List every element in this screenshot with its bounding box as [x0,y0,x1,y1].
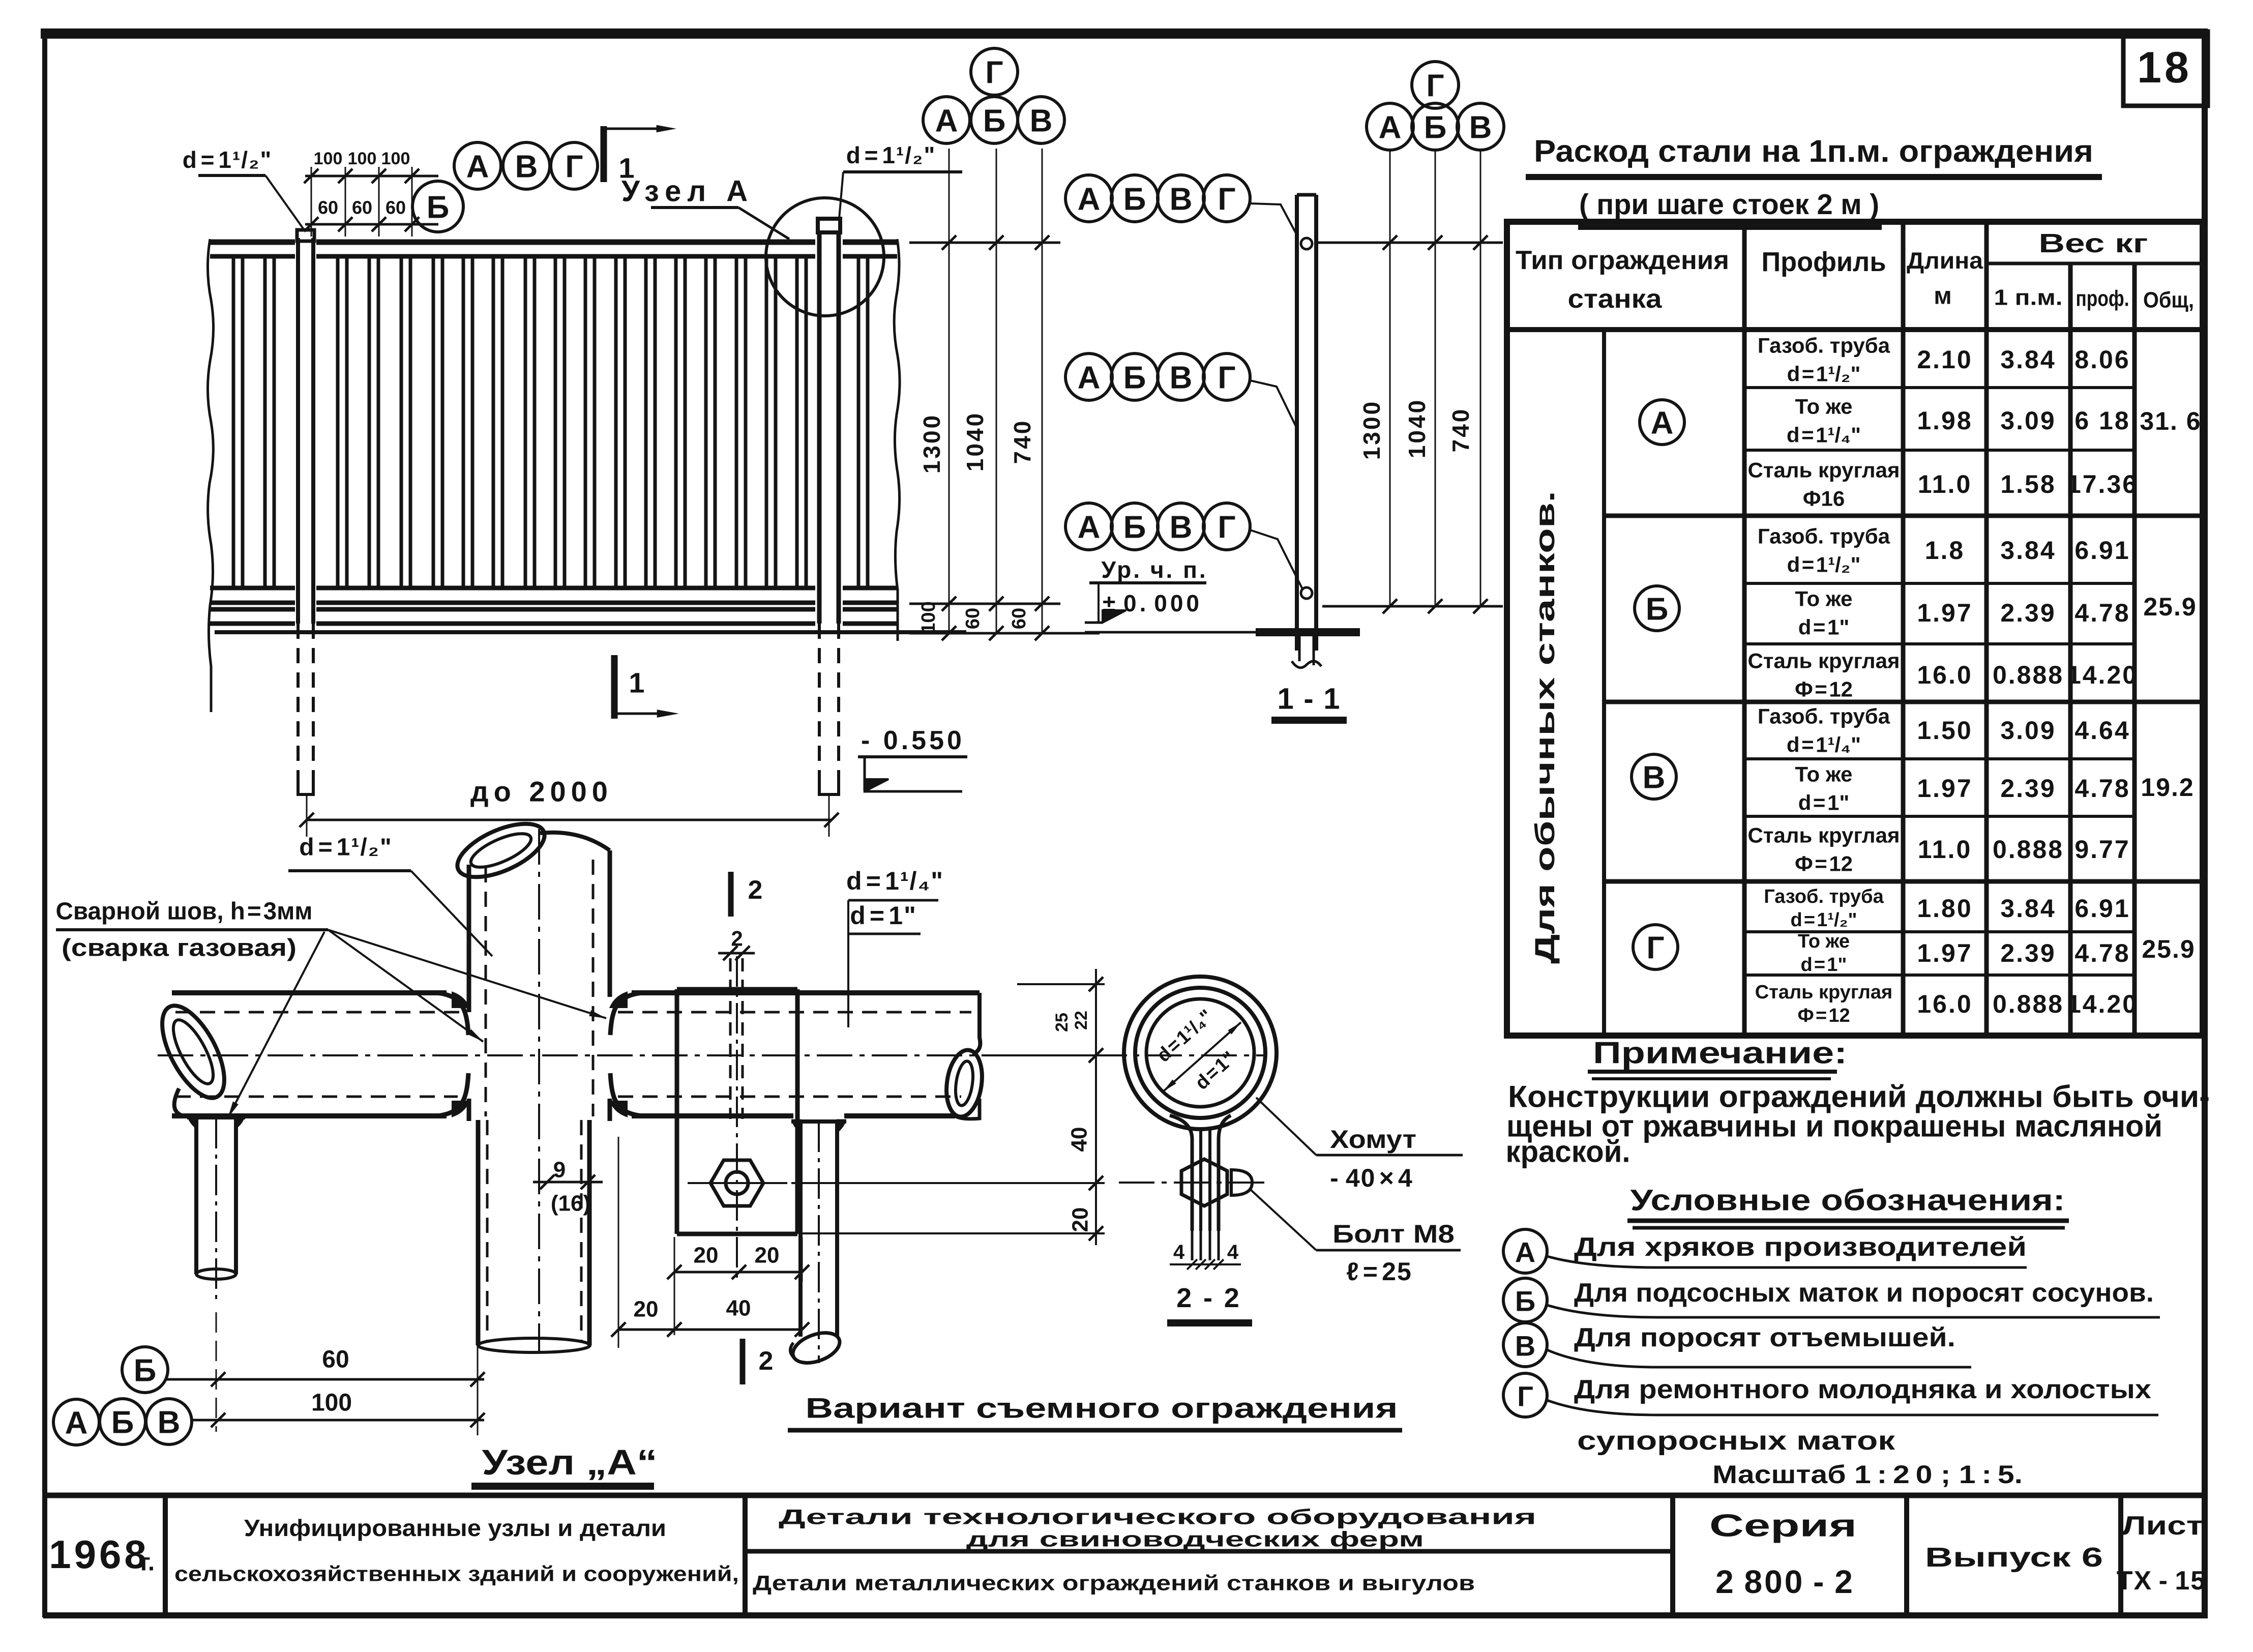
svg-text:20: 20 [1068,1207,1093,1232]
fence right post below ground dashed [818,624,821,783]
svg-text:25: 25 [1052,1013,1072,1032]
svg-text:2 - 2: 2 - 2 [1176,1283,1242,1313]
clamp right leg [798,1120,803,1337]
svg-text:Газоб. труба: Газоб. труба [1764,886,1884,907]
svg-text:d = 1¹/₄": d = 1¹/₄" [846,867,944,895]
svg-text:Для ремонтного молодняка и хол: Для ремонтного молодняка и холостых [1574,1375,2151,1404]
detail 2-2 pipe circle [1146,999,1254,1107]
clamp right dimension column [1095,969,1097,1245]
svg-text:11.0: 11.0 [1918,835,1972,864]
svg-text:Сталь круглая: Сталь круглая [1755,982,1892,1003]
svg-text:Ф = 12: Ф = 12 [1795,677,1853,701]
svg-text:Б: Б [983,104,1006,139]
svg-text:Лист: Лист [2122,1511,2203,1541]
svg-text:2: 2 [759,1346,774,1376]
svg-text:14.20: 14.20 [2067,661,2138,689]
svg-text:0.888: 0.888 [1993,661,2064,689]
uzel A vertical pipe [467,865,471,1012]
table type circles [1640,400,1684,445]
table sub-row separators [1744,386,2135,389]
svg-text:Конструкции ограждений должны: Конструкции ограждений должны быть очи- [1508,1080,2210,1114]
section mark 1 top [601,126,607,182]
sheet border frame [41,28,2208,39]
detail 2-2 neck below [1191,1231,1194,1260]
svg-text:3.09: 3.09 [2000,406,2056,435]
section 1-1 callout circles row 2 [1065,353,1112,400]
svg-text:Серия: Серия [1709,1509,1857,1544]
svg-text:d = 1": d = 1" [1798,615,1849,639]
svg-text:d = 1¹/₂": d = 1¹/₂" [1787,362,1861,386]
svg-text:Ф16: Ф16 [1803,487,1845,511]
svg-text:60: 60 [352,197,372,218]
svg-text:Для поросят отъемышей.: Для поросят отъемышей. [1574,1323,1955,1352]
post bolt hole top [1301,238,1312,249]
svg-text:2.10: 2.10 [1917,345,1972,374]
svg-text:Общ,: Общ, [2143,288,2194,313]
svg-text:17.36: 17.36 [2067,470,2138,498]
section mark 2 top [728,872,734,917]
fence bottom rail pipe 1 [210,586,295,591]
table column lines [1742,222,1747,1036]
svg-text:d = 1": d = 1" [1801,954,1847,976]
uzel A vertical pipe below crossing [476,1120,481,1345]
section 1-1 dim circles [1367,103,1413,150]
svg-text:В: В [158,1405,181,1440]
detail 2-2 hex nut [1181,1159,1227,1206]
svg-text:В: В [1030,104,1053,139]
uzel A dim circles A B V [53,1399,99,1445]
clamp centerline vertical [736,956,738,1282]
fence bottom long line [215,630,966,634]
svg-text:d = 1¹/₄": d = 1¹/₄" [1787,423,1861,447]
svg-text:6 18: 6 18 [2074,406,2130,435]
svg-text:В: В [1170,182,1193,217]
uzel A horizontal pipe left loop [150,996,237,1107]
svg-text:16.0: 16.0 [1917,661,1972,689]
clamp pipe right end loop [972,993,980,1054]
clamp hex bolt [710,1160,763,1206]
fence dim callout circles left trio [923,97,970,143]
uzel A crotch curves [437,993,468,1035]
svg-text:2 800 - 2: 2 800 - 2 [1715,1563,1855,1600]
legend row A [1503,1229,1547,1273]
svg-text:40: 40 [726,1296,751,1321]
svg-text:60: 60 [386,197,406,218]
svg-text:1968: 1968 [49,1532,150,1577]
svg-text:Б: Б [1123,182,1146,217]
uzel A dim line 60 [167,1378,484,1381]
svg-text:19.2: 19.2 [2141,773,2194,802]
weld leader arrows [328,930,483,1042]
svg-text:А: А [1078,182,1101,217]
clamp band [675,989,679,1234]
svg-text:3.84: 3.84 [2000,894,2056,923]
svg-text:Узел А: Узел А [621,175,754,208]
svg-text:Б: Б [1123,361,1146,396]
svg-text:В: В [1643,760,1666,795]
svg-text:Б: Б [1424,110,1447,145]
svg-text:9: 9 [553,1158,566,1183]
svg-text:d = 1¹/₂": d = 1¹/₂" [1791,909,1857,931]
svg-text:4.78: 4.78 [2074,939,2130,967]
fence left post below ground dashed [297,624,300,783]
svg-text:г.: г. [140,1549,155,1576]
callout circle B [412,181,463,232]
svg-text:16.0: 16.0 [1917,990,1972,1018]
svg-text:Ур. ч. п.: Ур. ч. п. [1101,556,1207,583]
svg-text:14.20: 14.20 [2067,990,2138,1018]
detail 2-2 bolt head [1231,1170,1252,1195]
svg-text:100: 100 [348,149,377,168]
svg-text:- 40 × 4: - 40 × 4 [1330,1164,1413,1192]
top dimension row 60 60 60 [305,223,438,226]
svg-text:d = 1¹/₂": d = 1¹/₂" [299,834,392,861]
svg-text:Для обычных станков.: Для обычных станков. [1530,491,1560,964]
title block vertical dividers [163,1495,168,1615]
svg-text:d = 1¹/₄": d = 1¹/₄" [1787,733,1861,757]
svg-text:Б: Б [134,1353,157,1389]
svg-text:4.78: 4.78 [2074,774,2130,803]
svg-text:Ф = 12: Ф = 12 [1797,1005,1850,1026]
svg-text:Сварной шов, h = 3мм: Сварной шов, h = 3мм [56,898,313,925]
svg-text:Для подсосных маток и поросят: Для подсосных маток и поросят сосунов. [1574,1278,2154,1308]
table group separators [1604,514,2203,518]
svg-text:Г: Г [1426,69,1444,104]
post bolt hole bottom [1301,587,1312,599]
svg-text:20: 20 [694,1243,719,1268]
svg-text:100: 100 [918,601,939,633]
node A callout circle [766,198,884,316]
svg-text:Г: Г [1218,361,1235,396]
svg-text:9.77: 9.77 [2074,835,2130,864]
svg-text:4: 4 [1227,1241,1239,1263]
svg-text:1300: 1300 [1358,400,1385,460]
svg-text:Вариант съемного ограждения: Вариант съемного ограждения [806,1392,1398,1424]
sheet number box [2123,32,2208,106]
svg-text:(16): (16) [551,1191,590,1216]
svg-text:60: 60 [322,1346,349,1373]
svg-text:40: 40 [1067,1127,1092,1152]
svg-text:Хомут: Хомут [1330,1125,1416,1154]
section 1-1 dimension lines [1318,242,1503,244]
svg-text:То же: То же [1795,762,1853,786]
uzel A horizontal pipe [172,990,447,995]
svg-text:Г: Г [565,150,583,185]
section 1-1 callout circles row 3 [1065,503,1112,550]
svg-text:60: 60 [1009,608,1030,629]
svg-text:20: 20 [755,1243,780,1268]
svg-text:4.64: 4.64 [2074,716,2130,745]
svg-text:В: В [1469,110,1492,145]
svg-text:То же: То же [1798,931,1850,952]
svg-text:20: 20 [634,1297,659,1322]
svg-text:1040: 1040 [1404,398,1430,458]
svg-text:740: 740 [1447,407,1474,453]
svg-text:Сталь круглая: Сталь круглая [1748,649,1900,673]
uzel A horizontal pipe centerline [158,1054,1266,1056]
svg-text:Б: Б [1123,510,1146,545]
svg-text:Г: Г [1218,182,1235,217]
top dimension row 100 100 100 [305,175,438,178]
clamp right leg bottom loop [789,1327,844,1369]
svg-text:Сталь круглая: Сталь круглая [1748,458,1900,482]
svg-text:для свиноводческих ферм: для свиноводческих ферм [966,1527,1424,1551]
svg-text:А: А [1515,1236,1535,1268]
svg-text:Г: Г [1517,1380,1533,1412]
svg-text:Масштаб 1 : 2 0 ; 1 : 5.: Масштаб 1 : 2 0 ; 1 : 5. [1712,1460,2023,1489]
fence right post [817,231,822,624]
fence dim callout circle G [971,48,1018,95]
svg-text:краской.: краской. [1506,1135,1631,1169]
uzel A dim extensions [477,1324,479,1435]
svg-text:Условные обозначения:: Условные обозначения: [1631,1184,2065,1217]
svg-text:Раскод стали на 1п.м. огражден: Раскод стали на 1п.м. ограждения [1534,134,2093,168]
svg-text:Болт М8: Болт М8 [1332,1220,1455,1248]
svg-text:d = 1¹/₂": d = 1¹/₂" [183,146,273,173]
svg-text:ℓ = 25: ℓ = 25 [1346,1257,1412,1286]
svg-text:- 0.550: - 0.550 [861,726,965,755]
svg-text:d = 1": d = 1" [1798,791,1849,815]
svg-text:Б: Б [111,1405,134,1440]
svg-text:100: 100 [381,149,410,168]
svg-text:(сварка газовая): (сварка газовая) [62,935,297,962]
svg-text:В: В [1170,510,1193,545]
clamp hex centerline horizontal [688,1182,787,1184]
post below ground break [1298,636,1301,661]
svg-text:Б: Б [1515,1285,1535,1317]
detail 2-2 neck [1170,1115,1192,1231]
clamp right leg weld blobs [792,1120,801,1132]
uzel A left leg weld blobs [188,1116,196,1128]
svg-text:2.39: 2.39 [2000,939,2056,967]
svg-text:Детали технологического обор: Детали технологического оборудования [779,1505,1536,1529]
svg-text:Г: Г [985,55,1003,91]
svg-text:1040: 1040 [962,411,988,471]
svg-text:1: 1 [629,667,644,699]
fence top rail pipe [210,240,295,245]
svg-text:1300: 1300 [918,414,945,474]
uzel A dim line 100 [192,1419,484,1422]
uzel A horizontal pipe inner dashed [175,1011,460,1014]
svg-text:d = 1¹/₂": d = 1¹/₂" [1787,553,1861,577]
svg-text:Ф = 12: Ф = 12 [1795,852,1853,876]
svg-text:31. 6: 31. 6 [2140,407,2201,435]
fence bottom rail pipe 2 [210,607,295,612]
svg-text:Б: Б [427,190,450,225]
section 1-1 callout circles row 1 [1065,175,1112,222]
svg-text:Длина: Длина [1907,247,1983,274]
svg-text:d = 1¹/₂": d = 1¹/₂" [846,142,936,168]
svg-text:1.98: 1.98 [1917,406,1972,435]
svg-text:Узел „А“: Узел „А“ [482,1442,658,1482]
svg-text:А: А [1651,406,1674,441]
callout circles A V G row [454,142,501,189]
svg-text:То же: То же [1795,395,1853,419]
svg-text:Г: Г [1218,510,1235,545]
svg-text:супоросных маток: супоросных маток [1577,1426,1895,1456]
legend row V [1503,1323,1547,1367]
svg-text:Выпуск 6: Выпуск 6 [1925,1542,2103,1573]
svg-text:2.39: 2.39 [2000,599,2056,627]
table outer frame [1507,222,2203,1036]
svg-text:сельскохозяйственных зданий и: сельскохозяйственных зданий и сооружений… [174,1562,739,1586]
svg-text:2: 2 [748,875,763,905]
svg-text:То же: То же [1795,587,1853,611]
svg-text:станка: станка [1568,284,1663,314]
svg-text:6.91: 6.91 [2074,536,2130,565]
uzel A vertical pipe inner dashed [485,867,487,1116]
detail 2-2 clamp ring [1124,977,1277,1129]
title block middle horizontal line [745,1549,1673,1554]
svg-text:1.8: 1.8 [1925,536,1965,565]
svg-text:740: 740 [1009,419,1035,464]
section mark 1 bottom [611,655,618,719]
svg-text:до 2000: до 2000 [470,776,613,808]
title block top line [45,1493,2205,1498]
svg-text:d = 1": d = 1" [850,901,917,930]
section 1-1 post [1295,195,1299,651]
svg-text:Сталь круглая: Сталь круглая [1748,823,1900,847]
svg-text:60: 60 [962,608,984,629]
svg-text:3.09: 3.09 [2000,716,2056,745]
svg-text:4: 4 [1173,1241,1185,1263]
svg-text:1: 1 [618,152,634,184]
svg-text:25.9: 25.9 [2143,593,2197,621]
uzel A dim circle B [122,1347,168,1393]
svg-text:Вес кг: Вес кг [2039,229,2148,258]
svg-text:18: 18 [2137,43,2192,92]
svg-text:1.58: 1.58 [2000,470,2056,498]
svg-text:В: В [515,150,538,185]
legend row B [1503,1278,1547,1322]
svg-text:А: А [65,1406,88,1441]
level flag [1098,583,1100,623]
svg-text:22: 22 [1072,1011,1091,1030]
section mark 2 bottom [740,1339,746,1384]
post ground bar [1256,628,1360,636]
svg-text:25.9: 25.9 [2142,935,2195,963]
uzel A vertical pipe top loop [450,813,552,888]
svg-text:Для хряков производителей: Для хряков производителей [1574,1232,2027,1262]
svg-text:100: 100 [311,1390,352,1417]
svg-text:А: А [1078,361,1101,396]
svg-text:ТХ - 15: ТХ - 15 [2117,1566,2206,1596]
svg-text:Газоб. труба: Газоб. труба [1758,524,1890,548]
fence right ragged edge [894,239,900,641]
svg-text:3.84: 3.84 [2000,345,2056,374]
uzel A left leg [194,1116,198,1274]
fence vertical bars [232,256,235,588]
uzel A vertical pipe centerline [538,829,540,1353]
svg-text:11.0: 11.0 [1918,470,1972,498]
svg-text:Газоб. труба: Газоб. труба [1758,334,1890,358]
svg-text:Детали металлических ограждени: Детали металлических ограждений станков … [753,1571,1475,1595]
svg-text:А: А [935,104,958,139]
svg-text:проф.: проф. [2076,286,2129,311]
fence left post [296,238,300,624]
svg-text:8.06: 8.06 [2074,345,2130,374]
svg-text:100: 100 [314,149,343,168]
svg-text:Тип ограждения: Тип ограждения [1516,246,1729,275]
svg-text:( при шаге стоек 2 м ): ( при шаге стоек 2 м ) [1579,188,1879,221]
svg-text:1 - 1: 1 - 1 [1277,683,1342,716]
detail 2-2 diameter arrow [1163,1022,1241,1091]
svg-text:4.78: 4.78 [2074,599,2130,627]
fence height dimension lines [909,242,1060,244]
svg-text:1.80: 1.80 [1917,894,1972,923]
svg-text:Газоб. труба: Газоб. труба [1758,704,1890,728]
svg-text:2.39: 2.39 [2000,774,2056,803]
legend row G [1503,1373,1547,1417]
svg-text:В: В [1515,1330,1535,1362]
svg-text:Унифицированные узлы и дета: Унифицированные узлы и детали [244,1515,666,1541]
svg-text:А: А [1078,510,1101,545]
detail 2-2 bolt centerline [1119,1182,1267,1184]
fence left ragged edge [207,239,213,712]
svg-text:В: В [1170,361,1193,396]
svg-text:Б: Б [1646,592,1669,627]
svg-text:60: 60 [318,197,338,218]
clamp bolt slot dashed [729,958,732,1119]
svg-text:3.84: 3.84 [2000,536,2056,565]
svg-text:Примечание:: Примечание: [1593,1036,1847,1070]
svg-text:1.97: 1.97 [1917,939,1972,967]
svg-text:1.97: 1.97 [1917,774,1972,803]
svg-text:0.888: 0.888 [1993,835,2064,864]
svg-text:Г: Г [1646,931,1664,966]
svg-text:1.50: 1.50 [1917,716,1972,745]
uzel A vertical pipe bottom end [478,1338,590,1352]
svg-text:А: А [466,150,489,185]
svg-text:Профиль: Профиль [1762,247,1886,277]
svg-text:0.888: 0.888 [1993,990,2064,1018]
svg-text:1.97: 1.97 [1917,599,1972,627]
svg-text:1 п.м.: 1 п.м. [1994,285,2063,310]
svg-text:А: А [1379,110,1402,145]
dimension extension lines [311,167,312,237]
table header row [1507,327,2203,332]
svg-text:м: м [1934,283,1952,310]
svg-text:6.91: 6.91 [2074,894,2130,923]
